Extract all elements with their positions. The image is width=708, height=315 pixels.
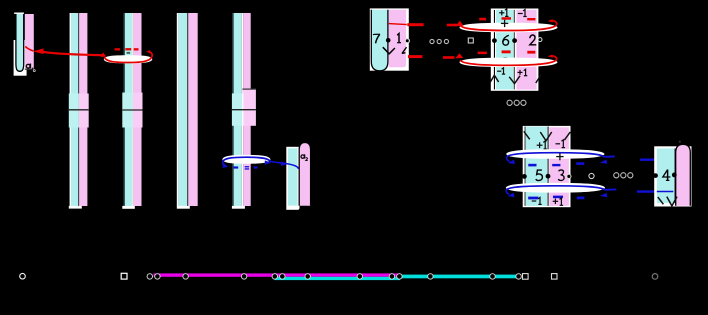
black plus on upper blue band	[556, 153, 563, 160]
lower red loop left arrowhead	[455, 53, 463, 58]
axis dots	[147, 274, 521, 280]
upper red dash far left	[447, 24, 458, 27]
tube 7/1 pink band	[389, 10, 406, 68]
tube 4 backing	[654, 146, 691, 206]
tube a2 cyan band	[288, 148, 298, 205]
upper blue loop band around 5/3	[506, 149, 604, 159]
label +1 bottom of band 3	[553, 200, 558, 202]
lower red dash far left	[443, 56, 455, 59]
tube a1 pink band	[25, 14, 34, 69]
blue connector lower to tube 4 (first part)	[637, 190, 657, 192]
bands 5/3 left edge	[525, 127, 526, 206]
ring between 3 and ooo	[589, 173, 594, 178]
blue hidden dashes below loop	[233, 166, 257, 170]
small black dash on band 6	[503, 57, 507, 59]
tube a2 pink tube with dome top	[299, 143, 310, 206]
ring right of 1	[405, 39, 409, 43]
blue dash connector upper to tube 4	[640, 159, 656, 161]
column A sleeve	[69, 94, 89, 128]
lower blue loop band around 5/3	[506, 183, 605, 193]
bands 6/2 backing	[491, 9, 539, 91]
band 3 pink	[549, 127, 569, 206]
lower blue loop back arc	[506, 186, 604, 190]
bands 6/2 left edge	[494, 10, 495, 89]
cyan segment continuation	[400, 275, 521, 279]
axis open square 2	[552, 274, 558, 280]
red tail from tube a1	[25, 47, 106, 58]
blue loop left arrowhead	[222, 163, 228, 168]
red meridian line on pink band	[389, 24, 407, 25]
ooo below bands 6/2	[507, 100, 526, 105]
upper red floating dash	[479, 18, 486, 21]
ringed dot right of 3	[567, 174, 571, 178]
label 2	[530, 35, 537, 45]
label 7	[373, 34, 380, 43]
cyan segment under magenta	[275, 277, 401, 280]
mid edge	[548, 127, 549, 206]
axis open square after cyan end	[523, 274, 529, 280]
blue tail from loop D to tube a2	[265, 160, 299, 169]
dot left of 5	[522, 174, 527, 179]
column C band pair	[177, 13, 198, 206]
tiny mark above tube 4 dome	[679, 141, 681, 143]
axis square marker	[121, 273, 127, 279]
tube 7/1 backing	[370, 8, 409, 70]
label 6	[503, 35, 509, 45]
label -1 top of band 2	[518, 13, 523, 15]
blue dashes under lower loop	[528, 196, 584, 200]
tiny ring after a1	[33, 70, 35, 72]
mid edge	[514, 10, 515, 90]
dot between 7 and 1	[386, 38, 391, 43]
ring right of 2	[538, 38, 542, 42]
red hidden dashes above loop	[115, 48, 139, 50]
label +1 bottom of band 2	[518, 71, 523, 73]
label -1 bottom of band 6	[497, 70, 501, 72]
label -1 top of band 3	[556, 143, 561, 145]
small square marker	[468, 38, 473, 43]
upper red loop front arc	[460, 25, 556, 30]
upper red loop band around 6/2	[459, 23, 557, 33]
dot right of 6	[512, 38, 517, 43]
band 6 cyan	[496, 10, 513, 90]
small grey dash on band	[127, 52, 131, 54]
tube a2 bottom cap	[287, 206, 300, 209]
tube a1 cyan tube	[16, 14, 24, 71]
tube 4 cyan band	[657, 148, 674, 203]
orientation slash under 1	[402, 47, 407, 53]
dot left of 4	[653, 173, 658, 178]
dot right of 4	[672, 173, 677, 178]
blue dashes under upper loop	[528, 162, 584, 166]
column C bottom cap	[177, 206, 190, 209]
ooo row between 5/3 and tube 4	[614, 173, 633, 178]
band 5 cyan	[526, 127, 548, 206]
blue loop band around column D	[222, 155, 270, 164]
upper red loop right hook	[553, 21, 557, 25]
blue line across tube 4 cyan band	[657, 191, 674, 193]
red loop band around column B	[104, 55, 153, 63]
tube a2 backing	[286, 147, 299, 210]
dot left of 6	[492, 38, 497, 43]
label a2	[301, 154, 308, 160]
column B band pair	[124, 13, 142, 206]
upper blue right tail	[604, 155, 615, 157]
column B bottom cap	[122, 206, 135, 209]
label +1 top of band 5	[537, 144, 543, 146]
red framing bar on band 2	[527, 18, 535, 20]
magenta segment	[154, 273, 400, 276]
lower red loop right hook	[553, 56, 557, 60]
band 2 pink	[516, 10, 536, 90]
label 4	[663, 170, 671, 181]
label a1	[26, 64, 32, 71]
red dash lower	[408, 55, 423, 58]
column B sleeve	[122, 93, 142, 128]
column A bottom cap	[69, 206, 82, 209]
red framing bar on band 6	[502, 17, 512, 20]
lower blue right tail	[605, 188, 617, 190]
label 1	[397, 34, 401, 43]
red dash upper	[407, 23, 423, 26]
upper blue loop back arc	[507, 153, 605, 157]
orientation arrows bottom of tube 4	[658, 197, 677, 206]
upper blue left hook arrowhead	[508, 160, 515, 164]
upper red loop left arrowhead	[456, 21, 464, 26]
column D sleeve	[232, 89, 256, 126]
bands 5/3 backing	[523, 126, 571, 207]
axis faint ring right	[652, 274, 658, 280]
black plus on upper band	[501, 20, 508, 27]
tube 4 pink tube with dome top	[676, 144, 691, 205]
blue loop back arc	[223, 157, 270, 161]
orientation arrow V under 7	[383, 47, 395, 54]
orientation arrows bottom of 6/2	[490, 75, 541, 84]
label +1 top of band 6	[499, 12, 504, 14]
label 5	[536, 170, 543, 180]
label -1 bottom of band 5	[532, 200, 537, 202]
red bars above lower loop	[478, 50, 536, 54]
lower blue left hook arrowhead	[508, 193, 515, 197]
lower red loop band around 6/2	[459, 58, 557, 68]
orientation arrows top of 5/3	[524, 131, 571, 141]
lower red loop front arc	[460, 60, 556, 65]
axis ring marker far left	[20, 273, 26, 279]
tube 7/1 cyan tube	[371, 10, 388, 71]
red loop end hook with arrowhead	[149, 52, 152, 57]
tube a1 backing	[14, 40, 27, 76]
ooo row between tube 7/1 and bands 6/2	[430, 39, 449, 43]
red loop front arc	[104, 57, 152, 63]
label 3	[558, 170, 564, 181]
dot between 5 and 3	[546, 174, 551, 179]
column D band pair	[232, 13, 251, 206]
column A band pair	[70, 13, 88, 206]
column D bottom cap	[232, 206, 245, 209]
tube 4 mid edge	[674, 148, 675, 203]
